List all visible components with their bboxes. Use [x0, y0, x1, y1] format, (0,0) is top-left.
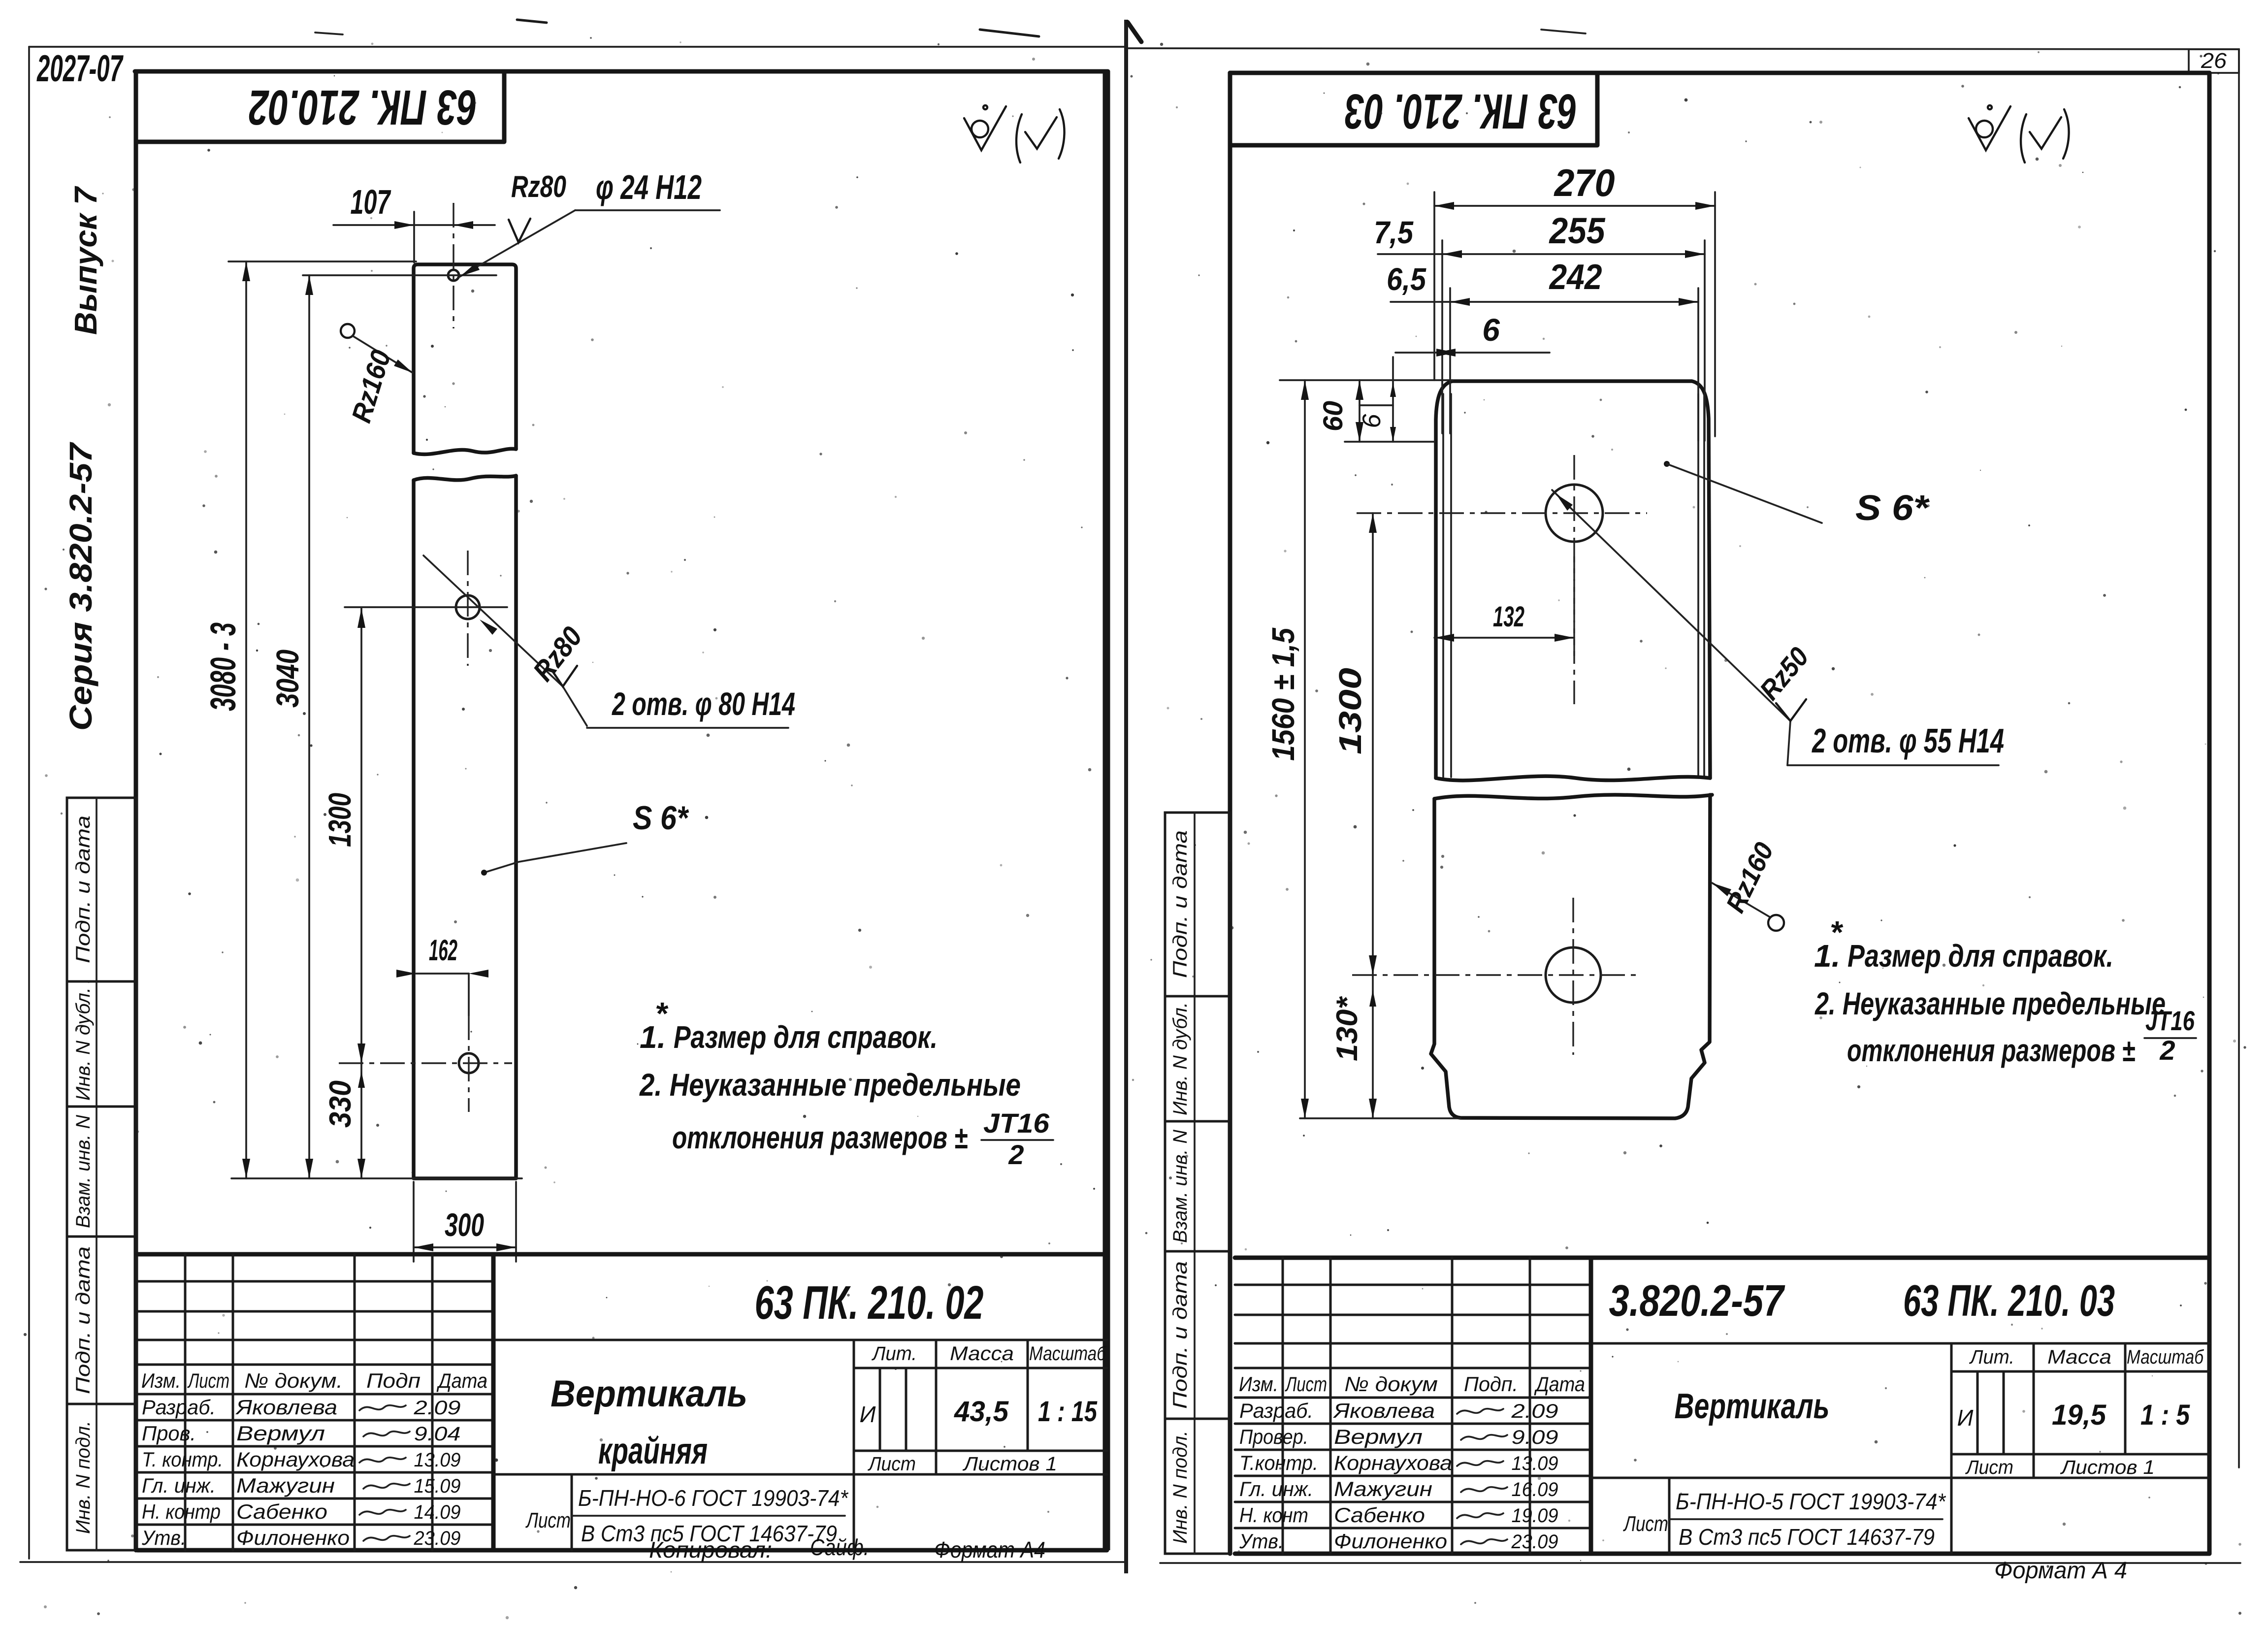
- svg-text:132: 132: [1493, 601, 1524, 633]
- svg-text:Серия 3.820.2-57: Серия 3.820.2-57: [63, 441, 98, 731]
- svg-text:63 ПК. 210. 03: 63 ПК. 210. 03: [1345, 84, 1577, 139]
- svg-text:Филоненко: Филоненко: [1334, 1530, 1447, 1553]
- left sheet stamp box 63 PK 210.02: [136, 71, 504, 142]
- svg-text:7,5: 7,5: [1374, 215, 1414, 250]
- leader 2 otv d55: [1552, 490, 1790, 721]
- left margin mini-stamp column: [67, 798, 136, 1550]
- svg-text:Корнаухова: Корнаухова: [236, 1448, 355, 1471]
- svg-text:ЈТ16: ЈТ16: [983, 1108, 1050, 1139]
- dim 1300 line: [360, 608, 362, 1063]
- left title block table: [137, 1252, 1107, 1257]
- svg-text:15.09: 15.09: [414, 1475, 461, 1497]
- svg-text:В Ст3 пс5 ГОСТ 14637-79: В Ст3 пс5 ГОСТ 14637-79: [1679, 1524, 1935, 1550]
- svg-text:26: 26: [2201, 49, 2227, 73]
- svg-text:Разраб.: Разраб.: [1239, 1399, 1313, 1422]
- svg-text:6: 6: [1482, 312, 1500, 348]
- svg-text:Мажугин: Мажугин: [236, 1474, 335, 1497]
- sheet outer border top: [29, 46, 1124, 48]
- svg-text:9.04: 9.04: [414, 1423, 461, 1445]
- break wavy line right bottom segment: [1434, 795, 1712, 799]
- svg-text:S 6*: S 6*: [633, 799, 689, 837]
- svg-text:Б-ПН-НО-5 ГОСТ 19903-74*: Б-ПН-НО-5 ГОСТ 19903-74*: [1676, 1489, 1946, 1514]
- left sheet frame: [135, 69, 1108, 74]
- hole d80 middle: [456, 595, 480, 619]
- svg-text:Дата: Дата: [436, 1369, 487, 1392]
- svg-text:130*: 130*: [1330, 996, 1363, 1061]
- svg-text:отклонения размеров ±: отклонения размеров ±: [672, 1120, 968, 1155]
- svg-text:Лист: Лист: [867, 1453, 916, 1475]
- part outline bottom segment: [414, 476, 516, 1178]
- svg-text:Н. конт: Н. конт: [1239, 1503, 1308, 1527]
- svg-text:Взам. инв. N: Взам. инв. N: [1169, 1130, 1191, 1243]
- right sheet frame: [1230, 71, 2209, 75]
- leader 2 otv d80: [423, 555, 563, 686]
- dim 6 top: [1395, 352, 1550, 354]
- ext line top part edge for 3080: [228, 261, 416, 262]
- scan smudges: [980, 30, 1039, 36]
- svg-text:63 ПК. 210.02: 63 ПК. 210.02: [249, 80, 477, 135]
- svg-text:№ докум: № докум: [1344, 1372, 1438, 1396]
- svg-text:14.09: 14.09: [414, 1501, 461, 1523]
- signatures squiggles right: [1457, 1409, 1503, 1414]
- left sheet roughness symbol: [972, 121, 988, 137]
- dim 255 and 7,5: [1442, 253, 1705, 255]
- svg-text:отклонения размеров ±: отклонения размеров ±: [1847, 1033, 2135, 1068]
- svg-text:9.09: 9.09: [1512, 1427, 1558, 1448]
- centerline bottom hole horizontal: [339, 1062, 512, 1064]
- dim 330 line: [360, 1063, 362, 1178]
- centerline mid hole vertical: [467, 551, 468, 666]
- svg-text:107: 107: [351, 183, 391, 221]
- break wavy line right top segment: [1436, 776, 1710, 781]
- svg-text:Инв. N подл.: Инв. N подл.: [72, 1421, 94, 1534]
- svg-text:2027-07: 2027-07: [36, 48, 124, 90]
- ext line part top to dims: [1280, 379, 1453, 381]
- bend line left inner: [1442, 394, 1444, 777]
- svg-text:Лист: Лист: [525, 1508, 571, 1532]
- hole bottom left part: [459, 1053, 479, 1073]
- sheet outer border left: [28, 47, 30, 1559]
- dim 132: [1434, 637, 1574, 639]
- centerline bottom hole vertical: [468, 1015, 469, 1112]
- svg-text:Вертикаль: Вертикаль: [551, 1373, 747, 1415]
- svg-text:Инв. N дубл.: Инв. N дубл.: [1169, 1002, 1191, 1115]
- dim 162: [416, 973, 469, 975]
- svg-text:43,5: 43,5: [954, 1396, 1009, 1428]
- svg-text:Провер.: Провер.: [1239, 1425, 1308, 1448]
- dim 1300 line right: [1372, 513, 1374, 975]
- break wavy line top segment bottom: [414, 449, 516, 454]
- svg-text:Подп: Подп: [366, 1369, 421, 1392]
- page number box 26: [2189, 49, 2239, 73]
- svg-text:2: 2: [1008, 1139, 1024, 1170]
- svg-text:Сабенко: Сабенко: [236, 1500, 327, 1523]
- svg-text:Т. контр.: Т. контр.: [142, 1448, 223, 1471]
- svg-text:Выпуск 7: Выпуск 7: [68, 186, 103, 335]
- svg-text:23.09: 23.09: [414, 1528, 461, 1549]
- svg-text:Листов 1: Листов 1: [2060, 1457, 2155, 1478]
- dim 6 vertical: [1392, 357, 1394, 442]
- svg-text:Пров.: Пров.: [142, 1422, 196, 1445]
- centerline top hole horizontal / ext 3040: [303, 274, 496, 276]
- signatures squiggles left: [359, 1405, 406, 1410]
- sheet outer border right: [2238, 49, 2240, 1467]
- svg-text:Подп. и дата: Подп. и дата: [1169, 1261, 1191, 1409]
- svg-text:6: 6: [1358, 414, 1386, 428]
- right sheet roughness symbol: [1976, 121, 1993, 137]
- svg-text:Масса: Масса: [950, 1343, 1014, 1365]
- part outline top segment: [414, 264, 516, 453]
- hole d24 top: [448, 270, 459, 281]
- svg-text:Подп. и дата: Подп. и дата: [72, 815, 94, 963]
- svg-text:2. Неуказанные предельные: 2. Неуказанные предельные: [1814, 986, 2166, 1021]
- centerline mid hole horizontal: [345, 606, 507, 608]
- svg-text:Масштаб: Масштаб: [1029, 1343, 1106, 1365]
- svg-text:Гл. инж.: Гл. инж.: [142, 1474, 216, 1497]
- svg-text:S 6*: S 6*: [1855, 489, 1930, 528]
- svg-text:Формат А4: Формат А4: [934, 1537, 1045, 1563]
- svg-text:ЈТ16: ЈТ16: [2145, 1005, 2195, 1036]
- svg-text:Формат А 4: Формат А 4: [1994, 1558, 2127, 1584]
- svg-text:19,5: 19,5: [2052, 1399, 2106, 1431]
- hole top d55 right part: [1546, 485, 1603, 542]
- svg-text:1300: 1300: [322, 793, 357, 847]
- svg-text:Сабенко: Сабенко: [1334, 1503, 1425, 1527]
- page divider line between sheets: [1124, 20, 1128, 1573]
- ext lines top dims verticals: [1433, 192, 1435, 380]
- svg-text:60: 60: [1317, 401, 1348, 431]
- svg-text:Подп.: Подп.: [1464, 1372, 1518, 1396]
- svg-text:2.09: 2.09: [1511, 1401, 1558, 1422]
- svg-text:1300: 1300: [1332, 668, 1368, 754]
- right sheet stamp box 63 PK 210.03: [1230, 73, 1597, 145]
- svg-text:2. Неуказанные предельные: 2. Неуказанные предельные: [639, 1067, 1021, 1103]
- svg-text:23.09: 23.09: [1511, 1531, 1558, 1553]
- svg-text:*: *: [1830, 914, 1844, 950]
- svg-text:Яковлева: Яковлева: [1333, 1399, 1435, 1422]
- svg-text:1560 ± 1,5: 1560 ± 1,5: [1265, 627, 1301, 761]
- svg-text:Мажугин: Мажугин: [1334, 1477, 1432, 1500]
- dim 242 and 6,5: [1450, 301, 1698, 303]
- svg-text:Инв. N дубл.: Инв. N дубл.: [72, 987, 94, 1101]
- dim 300 bottom: [414, 1246, 516, 1248]
- svg-text:Размер для справок.: Размер для справок.: [1847, 938, 2113, 974]
- svg-text:Лист: Лист: [1623, 1512, 1668, 1536]
- svg-text:Вертикаль: Вертикаль: [1675, 1387, 1830, 1426]
- part outline top segment right sheet: [1436, 381, 1710, 778]
- svg-text:Размер для справок.: Размер для справок.: [674, 1019, 938, 1055]
- svg-text:№ докум.: № докум.: [244, 1369, 343, 1392]
- dim 1560 line: [1304, 380, 1306, 1118]
- svg-text:Сайф.: Сайф.: [810, 1534, 869, 1560]
- svg-text:300: 300: [445, 1206, 484, 1243]
- svg-text:Вермул: Вермул: [1334, 1425, 1423, 1448]
- svg-text:И: И: [860, 1401, 876, 1427]
- svg-text:Изм.: Изм.: [141, 1369, 181, 1392]
- svg-text:Масштаб: Масштаб: [2127, 1346, 2204, 1368]
- svg-text:Филоненко: Филоненко: [236, 1526, 350, 1549]
- svg-text:13.09: 13.09: [1512, 1453, 1558, 1474]
- svg-text:19.09: 19.09: [1512, 1505, 1558, 1527]
- svg-text:2.09: 2.09: [413, 1397, 460, 1419]
- svg-text:330: 330: [324, 1080, 357, 1128]
- centerline bottom hole right horizontal: [1352, 974, 1637, 976]
- svg-text:255: 255: [1549, 210, 1606, 251]
- svg-text:φ 24 Н12: φ 24 Н12: [596, 168, 702, 206]
- right title block table: [1235, 1256, 2209, 1260]
- svg-text:Инв. N подл.: Инв. N подл.: [1169, 1431, 1191, 1544]
- part outline bottom segment right sheet: [1431, 795, 1710, 1118]
- centerline bottom hole right vertical: [1572, 898, 1574, 1055]
- ext line bottom right part: [1300, 1117, 1460, 1119]
- svg-text:270: 270: [1554, 161, 1615, 204]
- ext line bottom for dims: [231, 1177, 522, 1179]
- Rz160 leader right: [1712, 883, 1770, 917]
- svg-text:13.09: 13.09: [414, 1449, 461, 1471]
- S6 leader right: [1664, 461, 1670, 467]
- svg-text:162: 162: [429, 934, 457, 967]
- dim 3040 line: [308, 275, 310, 1178]
- bend line right inner2: [1703, 394, 1705, 777]
- svg-text:Гл. инж.: Гл. инж.: [1239, 1477, 1313, 1500]
- svg-text:63 ПК. 210. 03: 63 ПК. 210. 03: [1903, 1276, 2115, 1326]
- dim 107: [333, 224, 495, 226]
- svg-text:Подп. и дата: Подп. и дата: [1169, 830, 1191, 978]
- svg-text:Подп. и дата: Подп. и дата: [72, 1246, 94, 1394]
- svg-text:Изм.: Изм.: [1239, 1372, 1278, 1396]
- svg-text:1 : 15: 1 : 15: [1038, 1396, 1098, 1428]
- centerline hole top right vertical: [1573, 455, 1575, 661]
- hole bottom d55 right part: [1546, 947, 1601, 1003]
- svg-text:Т.контр.: Т.контр.: [1239, 1451, 1318, 1474]
- svg-text:1 : 5: 1 : 5: [2140, 1399, 2190, 1431]
- dim 60 vertical: [1359, 380, 1361, 442]
- break wavy line bottom segment top: [414, 476, 516, 480]
- sheet outer border bottom: [20, 1561, 1124, 1563]
- centerline hole top right horizontal: [1357, 512, 1647, 514]
- svg-text:Лист: Лист: [1285, 1372, 1327, 1396]
- svg-text:Лист: Лист: [187, 1369, 229, 1392]
- bend line right inner: [1697, 394, 1699, 777]
- svg-text:Разраб.: Разраб.: [142, 1396, 216, 1419]
- svg-text:*: *: [655, 996, 669, 1031]
- svg-text:Н. контр: Н. контр: [142, 1500, 221, 1523]
- svg-text:242: 242: [1549, 258, 1602, 297]
- svg-text:И: И: [1957, 1405, 1974, 1431]
- svg-text:Лит.: Лит.: [871, 1343, 917, 1365]
- svg-text:Масса: Масса: [2047, 1346, 2111, 1368]
- svg-text:Лит.: Лит.: [1969, 1346, 2014, 1368]
- dim 130 line: [1372, 975, 1374, 1118]
- svg-text:Лист: Лист: [1965, 1457, 2013, 1478]
- svg-text:Корнаухова: Корнаухова: [1334, 1451, 1452, 1474]
- dim 270: [1434, 205, 1715, 207]
- svg-text:Яковлева: Яковлева: [235, 1396, 337, 1419]
- svg-text:Дата: Дата: [1534, 1372, 1585, 1396]
- svg-text:3080 - 3: 3080 - 3: [204, 622, 243, 711]
- svg-text:крайняя: крайняя: [598, 1430, 708, 1472]
- svg-text:Взам. инв. N: Взам. инв. N: [72, 1115, 94, 1228]
- Rz160 leader left: [341, 324, 355, 338]
- svg-text:Rz80: Rz80: [511, 170, 566, 204]
- right margin mini-stamp column: [1165, 813, 1230, 1554]
- svg-text:Вермул: Вермул: [236, 1422, 325, 1445]
- svg-text:2 отв. φ 80 Н14: 2 отв. φ 80 Н14: [612, 685, 795, 722]
- svg-text:3.820.2-57: 3.820.2-57: [1609, 1276, 1785, 1326]
- svg-text:Утв.: Утв.: [141, 1526, 186, 1549]
- svg-text:Утв.: Утв.: [1239, 1530, 1284, 1553]
- svg-text:6,5: 6,5: [1387, 261, 1426, 297]
- centerline top hole vertical: [453, 203, 454, 328]
- svg-text:2: 2: [2159, 1035, 2175, 1066]
- dim 3080-3 line: [245, 261, 247, 1178]
- svg-text:16.09: 16.09: [1512, 1479, 1558, 1500]
- svg-text:Листов 1: Листов 1: [962, 1453, 1057, 1475]
- svg-text:3040: 3040: [270, 650, 305, 708]
- svg-text:Копировал:: Копировал:: [649, 1537, 772, 1563]
- bend line left inner2: [1450, 394, 1452, 777]
- ext line 60 dim bottom: [1345, 441, 1434, 443]
- svg-text:2 отв. φ 55 Н14: 2 отв. φ 55 Н14: [1812, 721, 2004, 760]
- svg-text:Б-ПН-НО-6 ГОСТ 19903-74*: Б-ПН-НО-6 ГОСТ 19903-74*: [578, 1485, 849, 1511]
